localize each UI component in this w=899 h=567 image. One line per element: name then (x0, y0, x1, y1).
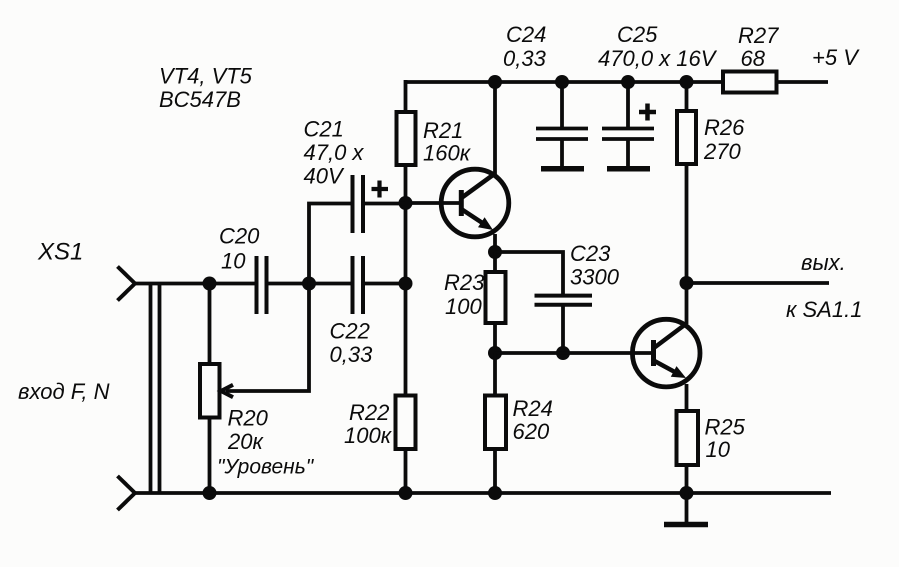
svg-text:20к: 20к (227, 429, 264, 454)
svg-text:BC547B: BC547B (159, 87, 241, 112)
capacitor C20 (257, 256, 267, 314)
svg-text:100: 100 (445, 294, 482, 319)
wire R24 bottom to rail (493, 449, 497, 493)
wire C20 to node C (269, 282, 310, 286)
wire C25 top (626, 80, 630, 127)
node C (302, 277, 316, 291)
node input bottom (203, 486, 217, 500)
svg-text:вход F, N: вход F, N (18, 379, 110, 404)
capacitor C25 (602, 129, 654, 169)
svg-text:100к: 100к (344, 423, 393, 448)
wire node to R20 top (208, 284, 212, 365)
svg-text:40V: 40V (304, 164, 345, 189)
wire R25 bottom to rail (685, 465, 689, 493)
resistor R25 (677, 411, 699, 465)
node B (399, 277, 413, 291)
resistor R24 (485, 396, 506, 450)
svg-text:C24: C24 (506, 22, 546, 47)
wire R26 bottom to output node (685, 164, 689, 283)
wire cable line 2 (158, 284, 162, 494)
capacitor C23 (535, 296, 593, 305)
wire VT4 base (406, 201, 460, 205)
wire VT4 collector to rail (493, 80, 497, 175)
node R23/R24/base junction (488, 346, 502, 360)
wire top rail left segment (404, 80, 723, 84)
wire VT4 emitter down (493, 234, 497, 252)
svg-text:R23: R23 (444, 270, 485, 295)
wire VT5 collector up to output node (685, 283, 689, 324)
wire node C up to C21 branch (309, 204, 351, 284)
transistor VT5 (632, 319, 700, 387)
node input top (203, 277, 217, 291)
svg-text:270: 270 (703, 139, 741, 164)
svg-text:68: 68 (741, 46, 766, 71)
wire R23 bottom to node (493, 323, 497, 353)
resistor R23 (486, 272, 506, 323)
svg-text:R20: R20 (228, 406, 269, 431)
wire R20 wiper from node C (226, 284, 309, 392)
node R22 bottom (399, 486, 413, 500)
wire C22 to node B (365, 282, 406, 286)
transistor VT4 (441, 169, 509, 237)
svg-text:R24: R24 (513, 396, 553, 421)
node C23 bottom (556, 346, 570, 360)
wire C23 bottom to base line (561, 306, 565, 353)
node output (680, 276, 694, 290)
ground (664, 493, 708, 525)
svg-text:C22: C22 (330, 319, 370, 344)
wire R20 bottom to rail (208, 418, 212, 494)
wire VT5 emitter to R25 (685, 384, 689, 411)
connector XS1 top arrow (118, 267, 136, 301)
wire top rail right segment to +5V (776, 80, 828, 84)
node VT4 emitter (488, 245, 502, 259)
wire R22 to bottom rail (404, 449, 408, 493)
svg-text:0,33: 0,33 (330, 342, 374, 367)
wire node C to C22 (309, 282, 351, 286)
svg-text:к SA1.1: к SA1.1 (786, 297, 862, 322)
connector XS1 bottom arrow (118, 476, 136, 510)
potentiometer R20 (200, 364, 220, 418)
node C24 top at rail (555, 75, 569, 89)
capacitor C24 (536, 129, 588, 169)
wire node B to R22 (404, 284, 408, 396)
svg-text:R27: R27 (738, 23, 779, 48)
svg-text:VT4, VT5: VT4, VT5 (159, 64, 253, 89)
svg-text:R22: R22 (349, 400, 389, 425)
svg-text:160к: 160к (423, 141, 472, 166)
wire cable line 1 (149, 284, 153, 494)
C25 polarity plus sign (639, 104, 656, 121)
node R24 bottom (488, 486, 502, 500)
node R26 top at rail (680, 75, 694, 89)
wire R26 top (685, 80, 689, 111)
wire emitter node to R23 (493, 252, 497, 272)
svg-text:3300: 3300 (570, 265, 620, 290)
svg-text:470,0 x 16V: 470,0 x 16V (598, 46, 718, 71)
resistor R27 (723, 72, 777, 93)
resistor R22 (396, 396, 416, 450)
node A junction R21/C21/base (399, 196, 413, 210)
wire C21 to node A (365, 202, 406, 206)
node VT4 collector at rail (488, 75, 502, 89)
svg-text:вых.: вых. (801, 250, 846, 275)
resistor R21 (397, 112, 416, 165)
wire C24 top (560, 80, 564, 127)
wire VT5 base line (495, 351, 651, 355)
capacitor C21 (353, 175, 364, 233)
wire R21 bottom to node A and down to node B (404, 165, 408, 285)
svg-text:R25: R25 (705, 415, 746, 440)
resistor R26 (677, 111, 696, 164)
svg-text:R21: R21 (423, 118, 463, 143)
wire node to R24 (493, 353, 497, 396)
svg-text:47,0 x: 47,0 x (304, 140, 365, 165)
wire output (687, 281, 830, 285)
capacitor C22 (353, 256, 364, 314)
svg-text:"Уровень": "Уровень" (217, 456, 315, 479)
svg-text:+5 V: +5 V (812, 45, 860, 70)
node C25 top at rail (621, 75, 635, 89)
wire signal input to C20 (133, 282, 255, 286)
wire emitter node to C23 (495, 252, 563, 294)
svg-text:C21: C21 (304, 116, 344, 141)
svg-text:10: 10 (221, 249, 246, 274)
svg-text:C25: C25 (617, 22, 658, 47)
node R25 bottom (680, 486, 694, 500)
svg-text:C23: C23 (570, 241, 611, 266)
R20 wiper arrowhead (221, 385, 233, 397)
svg-text:XS1: XS1 (37, 239, 83, 266)
svg-text:620: 620 (513, 419, 550, 444)
svg-text:R26: R26 (704, 115, 745, 140)
svg-text:C20: C20 (219, 224, 260, 249)
wire bottom rail (133, 491, 831, 495)
wire R21 top drop (404, 80, 408, 112)
C21 polarity plus sign (372, 181, 389, 198)
svg-text:10: 10 (706, 437, 731, 462)
svg-text:0,33: 0,33 (503, 46, 547, 71)
